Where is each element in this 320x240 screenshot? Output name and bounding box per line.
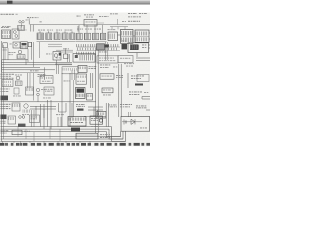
box B7 bbox=[30, 115, 40, 123]
label box A/F bbox=[84, 20, 97, 27]
wire pair right bbox=[32, 21, 42, 67]
wire bus top bbox=[30, 24, 150, 26]
wire bbox=[5, 48, 8, 60]
wire bbox=[142, 97, 150, 100]
label box bbox=[100, 74, 114, 79]
distributor bbox=[22, 104, 29, 115]
wire bus bottom bbox=[1, 137, 126, 142]
small box bottom bbox=[12, 130, 30, 135]
wire drop group bbox=[32, 100, 52, 129]
label A F sensor bbox=[84, 14, 94, 17]
connector box C-06 bbox=[8, 116, 16, 124]
label dark block bbox=[1, 115, 7, 124]
fuse box assembly bbox=[37, 30, 76, 42]
ignition switch SW2 bbox=[15, 75, 22, 86]
toolbar bbox=[0, 0, 150, 5]
arrow marks bbox=[110, 13, 128, 29]
dense cluster U2 bbox=[68, 117, 86, 132]
label box right bbox=[137, 75, 149, 82]
box B4 bbox=[87, 94, 93, 101]
schematic paper bbox=[0, 13, 150, 147]
label right bbox=[131, 76, 144, 86]
connector C-03 bbox=[64, 48, 69, 59]
sensor box B1 bbox=[76, 74, 87, 84]
box B6 bbox=[96, 112, 106, 123]
connector hatch bbox=[18, 26, 25, 31]
label ECU bbox=[136, 106, 150, 111]
wire bus group 2 bbox=[1, 127, 112, 132]
nested wire loops bbox=[107, 127, 126, 142]
dark cluster K4 bbox=[76, 88, 86, 99]
wire bus 2 bbox=[30, 106, 56, 118]
junction box J2 bbox=[2, 80, 13, 87]
label A-36 bbox=[27, 16, 39, 19]
wire bbox=[62, 73, 74, 127]
label bbox=[56, 114, 64, 126]
box bottom bbox=[76, 133, 110, 139]
wire pair bbox=[26, 49, 28, 65]
relay K2 bbox=[21, 42, 28, 49]
label rows bbox=[1, 89, 10, 92]
label rows left bbox=[1, 74, 14, 79]
relay K0 bbox=[19, 20, 30, 28]
wire bbox=[118, 33, 151, 39]
connector C-04 bbox=[62, 67, 78, 74]
label cluster bbox=[76, 104, 85, 111]
label bbox=[120, 104, 132, 107]
relay K1 bbox=[12, 29, 27, 39]
label bbox=[99, 51, 108, 54]
wire color code labels bbox=[0, 143, 150, 146]
wire bus group bbox=[2, 60, 72, 70]
wire bbox=[29, 19, 33, 32]
fuse box assembly 2 bbox=[76, 25, 107, 42]
wire pair W3 bbox=[106, 103, 108, 127]
label box small bbox=[102, 88, 113, 93]
control unit U1 bbox=[40, 76, 53, 84]
label right 2 bbox=[129, 92, 148, 95]
wire bbox=[78, 23, 104, 32]
wire crossing bbox=[45, 60, 59, 80]
wire pair W1 bbox=[96, 42, 109, 133]
junction block J/B bbox=[1, 27, 11, 39]
small box bbox=[28, 43, 32, 47]
valve circles Y2 bbox=[36, 88, 45, 101]
label above bbox=[122, 40, 126, 43]
box B5 bbox=[12, 103, 20, 111]
connector C-01 bbox=[121, 30, 134, 44]
label 6M head bbox=[122, 13, 147, 22]
label bbox=[2, 25, 11, 28]
ticked box bbox=[73, 54, 95, 63]
label rows bbox=[9, 52, 16, 55]
wire bbox=[59, 103, 73, 118]
wire pair W4 bbox=[91, 73, 93, 88]
connector C-02 bbox=[135, 30, 149, 42]
label row bbox=[99, 15, 109, 18]
frame border left bbox=[2, 41, 4, 141]
switch S3 bbox=[10, 42, 21, 48]
label 6M bbox=[77, 15, 81, 18]
wire bbox=[127, 73, 129, 88]
motor M1 bbox=[46, 52, 61, 61]
wire bbox=[55, 50, 73, 64]
component row ticks 2 bbox=[77, 52, 97, 55]
label bbox=[116, 75, 123, 78]
label box long bbox=[97, 56, 118, 63]
battery box bbox=[121, 112, 150, 131]
wire bus lower bbox=[2, 70, 75, 80]
label mid bbox=[56, 48, 69, 58]
diode D1 box bbox=[3, 43, 8, 51]
toolbar button bbox=[7, 1, 13, 4]
label TA bbox=[100, 136, 112, 139]
wire pair W2 bbox=[119, 64, 121, 117]
cluster B9 bbox=[90, 116, 103, 127]
wire bbox=[40, 42, 63, 58]
switch S2 bbox=[108, 29, 118, 40]
label bbox=[100, 65, 110, 68]
label rows bottom bbox=[1, 130, 9, 133]
wire bbox=[28, 73, 34, 101]
label rows 2 bbox=[1, 104, 11, 109]
wire stubs bbox=[3, 127, 91, 143]
wire jog bbox=[84, 107, 106, 117]
box B3 bbox=[43, 87, 54, 98]
relay label dark bbox=[1, 96, 9, 101]
wire bbox=[137, 45, 150, 57]
label bbox=[103, 94, 111, 97]
wire bbox=[136, 58, 150, 61]
ignition parts bbox=[18, 116, 26, 127]
relay box dark K3 bbox=[122, 43, 149, 53]
label bbox=[38, 74, 46, 77]
wire bus bbox=[1, 101, 97, 103]
connector pair C-05 bbox=[13, 88, 21, 96]
label bbox=[108, 105, 117, 108]
ignition switch SW1 bbox=[17, 50, 25, 59]
small marks bbox=[113, 63, 134, 67]
solenoid Y1 bbox=[78, 66, 96, 73]
label box 2 bbox=[118, 56, 133, 63]
title text bbox=[1, 13, 18, 16]
resistor block R2 bbox=[97, 44, 105, 50]
box B2 bbox=[26, 87, 34, 95]
component row ticks bbox=[77, 44, 121, 50]
